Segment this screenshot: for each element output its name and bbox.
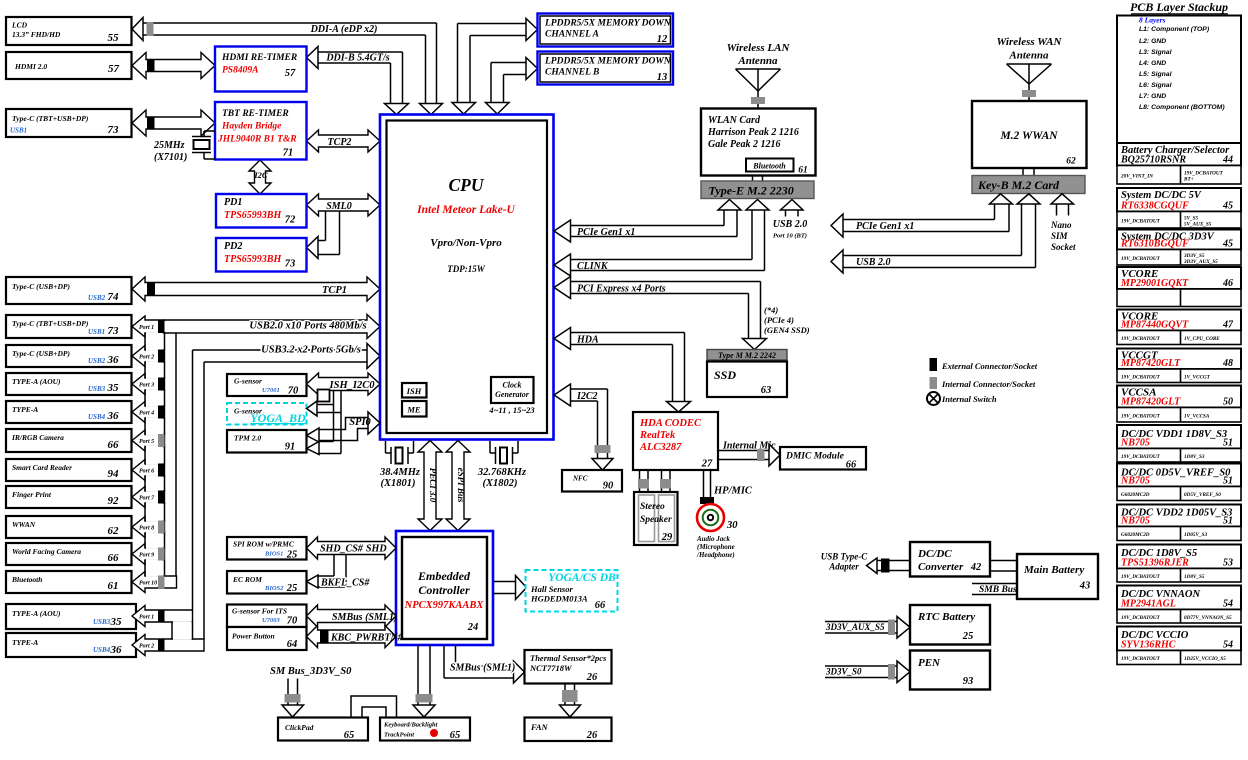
svg-text:PD1: PD1: [224, 197, 242, 208]
svg-text:Type-E M.2 2230: Type-E M.2 2230: [709, 184, 794, 198]
svg-text:1D25V_VCCIO_S5: 1D25V_VCCIO_S5: [1184, 656, 1226, 662]
svg-text:TrackPoint: TrackPoint: [384, 732, 414, 739]
svg-text:54: 54: [1223, 599, 1233, 610]
svg-text:G6020MC2D: G6020MC2D: [1121, 492, 1150, 498]
svg-text:73: 73: [108, 325, 120, 337]
svg-text:65: 65: [450, 730, 461, 741]
svg-text:HDMI RE-TIMER: HDMI RE-TIMER: [221, 53, 297, 63]
svg-text:LPDDR5/5X MEMORY DOWN: LPDDR5/5X MEMORY DOWN: [544, 19, 672, 29]
svg-text:L4: GND: L4: GND: [1139, 60, 1166, 67]
svg-text:Wireless LAN: Wireless LAN: [727, 42, 791, 54]
svg-text:Type M M.2 2242: Type M M.2 2242: [718, 351, 776, 360]
svg-text:NB705: NB705: [1120, 476, 1150, 487]
svg-text:L3: Signal: L3: Signal: [1139, 49, 1172, 56]
svg-text:TYPE-A: TYPE-A: [12, 638, 38, 647]
svg-text:JHL9040R B1 T&R: JHL9040R B1 T&R: [217, 135, 297, 145]
svg-text:CHANNEL A: CHANNEL A: [545, 30, 599, 40]
svg-text:24: 24: [467, 622, 479, 633]
svg-text:Type-C (USB+DP): Type-C (USB+DP): [12, 349, 70, 358]
svg-text:RTC Battery: RTC Battery: [917, 611, 975, 623]
svg-text:Antenna: Antenna: [1008, 50, 1049, 62]
svg-text:66: 66: [108, 439, 120, 451]
svg-text:ISH_I2C0: ISH_I2C0: [329, 380, 376, 391]
svg-text:PS8409A: PS8409A: [222, 66, 258, 76]
svg-text:I2C: I2C: [253, 170, 268, 180]
svg-text:19V_DCBATOUT: 19V_DCBATOUT: [1121, 374, 1161, 380]
svg-text:Speaker: Speaker: [640, 515, 672, 525]
svg-text:SMB Bus: SMB Bus: [979, 585, 1017, 595]
svg-text:SPI0: SPI0: [349, 417, 371, 428]
svg-text:SHD_CS#: SHD_CS#: [320, 544, 364, 555]
svg-text:66: 66: [595, 600, 606, 611]
svg-text:G-sensor For ITS: G-sensor For ITS: [232, 607, 287, 616]
svg-text:HP/MIC: HP/MIC: [713, 486, 753, 497]
svg-text:USB 2.0: USB 2.0: [856, 257, 890, 268]
svg-text:SSD: SSD: [714, 368, 736, 382]
svg-text:SML0: SML0: [326, 201, 352, 212]
svg-text:(*4): (*4): [764, 305, 778, 315]
svg-text:BIOS1: BIOS1: [264, 551, 283, 558]
svg-text:NCT7718W: NCT7718W: [529, 663, 573, 673]
svg-text:DMIC Module: DMIC Module: [785, 452, 845, 462]
svg-text:G6020MC2D: G6020MC2D: [1121, 532, 1150, 538]
svg-text:Audio Jack: Audio Jack: [696, 535, 730, 543]
svg-text:KBC_PWRBTN#: KBC_PWRBTN#: [330, 633, 404, 644]
svg-text:TBT RE-TIMER: TBT RE-TIMER: [222, 109, 289, 119]
svg-text:3D3V_AUX_S5: 3D3V_AUX_S5: [1183, 259, 1218, 265]
svg-text:L7: GND: L7: GND: [1139, 93, 1166, 100]
svg-text:YOGA_BD: YOGA_BD: [250, 411, 306, 425]
svg-text:(X1802): (X1802): [483, 478, 518, 489]
svg-text:HDA CODEC: HDA CODEC: [639, 418, 702, 429]
svg-text:L8: Component (BOTTOM): L8: Component (BOTTOM): [1139, 104, 1225, 111]
svg-text:Internal Mic: Internal Mic: [722, 441, 776, 452]
svg-text:72: 72: [285, 215, 296, 226]
svg-text:Embedded: Embedded: [417, 569, 471, 583]
svg-text:66: 66: [846, 460, 857, 471]
svg-text:USB Type-C: USB Type-C: [821, 552, 868, 562]
svg-text:Port 8: Port 8: [139, 526, 154, 532]
svg-text:Port 4: Port 4: [139, 411, 154, 417]
svg-text:SIM: SIM: [1051, 231, 1069, 241]
svg-text:19V_DCBATOUT: 19V_DCBATOUT: [1121, 454, 1161, 460]
svg-text:USB2: USB2: [88, 357, 106, 365]
svg-text:CHANNEL B: CHANNEL B: [545, 68, 599, 78]
svg-text:DC/DC: DC/DC: [917, 548, 952, 560]
svg-text:Gale Peak 2 1216: Gale Peak 2 1216: [708, 139, 781, 150]
svg-text:70: 70: [288, 386, 299, 397]
svg-text:I2C2: I2C2: [576, 391, 598, 402]
svg-text:73: 73: [285, 259, 296, 270]
svg-text:BQ25710RSNR: BQ25710RSNR: [1120, 155, 1186, 166]
svg-text:ME: ME: [406, 405, 421, 415]
svg-text:DDI-B 5.4GT/s: DDI-B 5.4GT/s: [325, 53, 389, 64]
svg-text:MP29001GQKT: MP29001GQKT: [1120, 278, 1189, 289]
svg-text:PECI 3.0: PECI 3.0: [428, 468, 438, 503]
svg-text:SMBus (SML1): SMBus (SML1): [450, 663, 515, 674]
svg-text:HDA: HDA: [576, 335, 599, 346]
svg-text:LPDDR5/5X MEMORY DOWN: LPDDR5/5X MEMORY DOWN: [544, 57, 672, 67]
svg-text:(GEN4 SSD): (GEN4 SSD): [764, 325, 810, 335]
svg-text:PCIe Gen1 x1: PCIe Gen1 x1: [856, 221, 914, 232]
svg-text:73: 73: [108, 124, 120, 136]
svg-text:PEN: PEN: [918, 657, 941, 669]
svg-text:45: 45: [1222, 239, 1233, 250]
svg-text:L2: GND: L2: GND: [1139, 38, 1166, 45]
svg-text:WLAN Card: WLAN Card: [708, 115, 761, 126]
svg-text:TYPE-A (AOU): TYPE-A (AOU): [12, 377, 61, 386]
svg-text:Wireless WAN: Wireless WAN: [997, 36, 1063, 48]
svg-text:/Headphone): /Headphone): [696, 551, 735, 559]
svg-text:1D8V_S5: 1D8V_S5: [1184, 574, 1205, 580]
svg-text:NPCX997KAABX: NPCX997KAABX: [404, 600, 485, 611]
svg-text:19V_DCBATOUT: 19V_DCBATOUT: [1121, 256, 1161, 262]
svg-text:ISH: ISH: [406, 386, 422, 396]
svg-text:1D8V_S3: 1D8V_S3: [1184, 454, 1205, 460]
svg-text:TPS51396RJER: TPS51396RJER: [1121, 558, 1189, 569]
svg-text:62: 62: [1066, 157, 1076, 167]
svg-text:USB2.0 x10 Ports 480Mb/s: USB2.0 x10 Ports 480Mb/s: [249, 321, 366, 332]
svg-text:TPS65993BH: TPS65993BH: [224, 210, 282, 221]
svg-text:51: 51: [1223, 516, 1233, 527]
svg-text:SHD: SHD: [366, 544, 387, 555]
svg-text:42: 42: [970, 562, 982, 573]
svg-text:64: 64: [287, 639, 298, 650]
svg-text:4~11 , 15~23: 4~11 , 15~23: [488, 405, 535, 415]
svg-text:Port 1: Port 1: [139, 325, 154, 331]
svg-text:(X7101): (X7101): [154, 152, 187, 163]
svg-text:Port 9: Port 9: [139, 553, 154, 559]
svg-text:36: 36: [107, 354, 120, 366]
svg-text:Converter: Converter: [918, 561, 964, 573]
svg-text:Internal Switch: Internal Switch: [941, 394, 997, 404]
svg-text:M.2 WWAN: M.2 WWAN: [999, 130, 1058, 142]
svg-text:Keyboard/Backlight: Keyboard/Backlight: [383, 722, 438, 729]
svg-text:46: 46: [1222, 278, 1233, 289]
svg-text:Power Button: Power Button: [232, 632, 275, 641]
svg-text:Port 6: Port 6: [139, 469, 154, 475]
svg-text:51: 51: [1223, 438, 1233, 449]
svg-text:29: 29: [661, 532, 673, 543]
svg-text:Harrison Peak 2 1216: Harrison Peak 2 1216: [707, 127, 799, 138]
svg-text:Internal Connector/Socket: Internal Connector/Socket: [941, 379, 1036, 389]
svg-text:Main Battery: Main Battery: [1023, 564, 1084, 576]
svg-text:ALC3287: ALC3287: [639, 442, 682, 453]
svg-text:TPM 2.0: TPM 2.0: [234, 434, 261, 443]
svg-text:19V_DCBATOUT: 19V_DCBATOUT: [1121, 574, 1161, 580]
svg-text:U7001: U7001: [262, 387, 280, 394]
svg-text:94: 94: [108, 468, 120, 480]
svg-text:RT6338CGQUF: RT6338CGQUF: [1120, 201, 1189, 212]
svg-text:61: 61: [108, 580, 119, 592]
svg-text:71: 71: [283, 148, 294, 159]
svg-text:Clock: Clock: [502, 381, 521, 390]
svg-text:G-sensor: G-sensor: [234, 377, 262, 386]
svg-text:NB705: NB705: [1120, 516, 1150, 527]
svg-text:USB 2.0: USB 2.0: [773, 219, 807, 230]
svg-text:57: 57: [285, 68, 296, 79]
svg-text:63: 63: [761, 385, 772, 396]
svg-text:43: 43: [1079, 581, 1091, 592]
svg-text:Type-C (TBT+USB+DP): Type-C (TBT+USB+DP): [12, 114, 89, 123]
svg-text:RealTek: RealTek: [639, 430, 676, 441]
svg-text:0D5V_VREF_S0: 0D5V_VREF_S0: [1184, 492, 1221, 498]
svg-text:Thermal Sensor*2pcs: Thermal Sensor*2pcs: [530, 653, 607, 663]
svg-text:13.3” FHD/HD: 13.3” FHD/HD: [12, 30, 61, 39]
svg-text:IR/RGB Camera: IR/RGB Camera: [11, 433, 64, 442]
svg-text:25: 25: [286, 550, 298, 561]
svg-text:3D3V_S0: 3D3V_S0: [825, 667, 862, 677]
svg-text:66: 66: [108, 552, 120, 564]
svg-text:0D77V_VNNAON_S5: 0D77V_VNNAON_S5: [1184, 615, 1232, 621]
svg-text:Intel Meteor Lake-U: Intel Meteor Lake-U: [416, 204, 515, 216]
svg-text:MP87420GLT: MP87420GLT: [1120, 397, 1181, 408]
svg-text:HDMI 2.0: HDMI 2.0: [14, 62, 47, 71]
svg-text:36: 36: [107, 410, 120, 422]
svg-text:57: 57: [108, 63, 120, 75]
svg-text:Socket: Socket: [1051, 242, 1076, 252]
svg-text:62: 62: [108, 525, 120, 537]
svg-text:35: 35: [107, 382, 120, 394]
svg-text:Type-C (USB+DP): Type-C (USB+DP): [12, 282, 70, 291]
svg-text:BT+: BT+: [1183, 176, 1194, 182]
svg-text:ClickPad: ClickPad: [285, 723, 314, 732]
svg-text:Adapter: Adapter: [828, 562, 859, 572]
svg-text:SM Bus_3D3V_S0: SM Bus_3D3V_S0: [270, 666, 352, 677]
svg-text:NFC: NFC: [572, 475, 588, 483]
svg-text:1V_VCCGT: 1V_VCCGT: [1184, 374, 1211, 380]
svg-text:Port 2: Port 2: [139, 644, 154, 650]
svg-text:19V_DCBATOUT: 19V_DCBATOUT: [1121, 218, 1161, 224]
svg-text:19V_DCBATOUT: 19V_DCBATOUT: [1121, 615, 1161, 621]
svg-text:USB2: USB2: [88, 294, 106, 302]
svg-text:1D05V_S3: 1D05V_S3: [1184, 532, 1207, 538]
svg-text:HGDEDM013A: HGDEDM013A: [530, 594, 588, 604]
svg-text:Vpro/Non-Vpro: Vpro/Non-Vpro: [430, 237, 502, 249]
svg-text:L6: Signal: L6: Signal: [1139, 82, 1172, 89]
svg-text:MP87440GQVT: MP87440GQVT: [1120, 320, 1189, 331]
svg-text:SYV136RHC: SYV136RHC: [1121, 640, 1176, 651]
svg-text:Port 10: Port 10: [139, 581, 157, 587]
svg-text:44: 44: [1222, 155, 1233, 166]
svg-text:Port 3: Port 3: [139, 383, 154, 389]
svg-text:Smart Card Reader: Smart Card Reader: [12, 463, 72, 472]
svg-text:70: 70: [287, 616, 298, 627]
svg-text:External Connector/Socket: External Connector/Socket: [941, 361, 1038, 371]
svg-text:Hall Sensor: Hall Sensor: [530, 584, 573, 594]
svg-text:World Facing Camera: World Facing Camera: [12, 547, 81, 556]
svg-text:26: 26: [586, 672, 598, 683]
svg-text:30: 30: [726, 520, 738, 531]
svg-text:26: 26: [586, 730, 598, 741]
svg-text:(X1801): (X1801): [381, 478, 416, 489]
svg-text:BIOS2: BIOS2: [264, 585, 284, 592]
svg-text:WWAN: WWAN: [12, 520, 36, 529]
svg-text:System DC/DC 5V: System DC/DC 5V: [1121, 190, 1202, 201]
svg-text:MP87420GLT: MP87420GLT: [1120, 358, 1181, 369]
svg-text:Bluetooth: Bluetooth: [752, 162, 786, 171]
svg-text:USB4: USB4: [93, 646, 111, 654]
svg-text:1V_CPU_CORE: 1V_CPU_CORE: [1184, 336, 1220, 342]
svg-text:54: 54: [1223, 640, 1233, 651]
svg-text:48: 48: [1222, 358, 1233, 369]
svg-text:eSPI Bus: eSPI Bus: [456, 468, 466, 503]
svg-text:13: 13: [657, 72, 668, 83]
svg-text:Bluetooth: Bluetooth: [11, 575, 42, 584]
svg-text:36: 36: [110, 644, 123, 656]
svg-text:38.4MHz: 38.4MHz: [379, 467, 421, 478]
svg-text:(PCIe 4): (PCIe 4): [764, 315, 794, 325]
svg-text:90: 90: [603, 481, 614, 492]
svg-text:35: 35: [110, 616, 123, 628]
svg-text:CLINK: CLINK: [577, 261, 609, 272]
svg-text:LCD: LCD: [11, 21, 28, 30]
svg-text:PD2: PD2: [224, 241, 242, 252]
svg-text:USB4: USB4: [88, 413, 106, 421]
svg-text:Type-C (TBT+USB+DP): Type-C (TBT+USB+DP): [12, 319, 89, 328]
svg-text:L1: Component (TOP): L1: Component (TOP): [1139, 26, 1210, 33]
svg-text:PCI Express x4 Ports: PCI Express x4 Ports: [577, 284, 666, 295]
svg-text:1V_VCCSA: 1V_VCCSA: [1184, 413, 1210, 419]
svg-text:25: 25: [286, 583, 298, 594]
svg-text:27: 27: [701, 459, 713, 470]
svg-text:Port 2: Port 2: [139, 355, 154, 361]
svg-text:SMBus (SML1): SMBus (SML1): [332, 612, 397, 623]
svg-text:92: 92: [108, 495, 120, 507]
svg-text:Nano: Nano: [1050, 220, 1072, 230]
svg-text:U7003: U7003: [262, 617, 280, 624]
svg-text:TCP1: TCP1: [322, 285, 347, 296]
svg-text:20V_VINT_IN: 20V_VINT_IN: [1120, 173, 1153, 179]
svg-text:25MHz: 25MHz: [153, 140, 185, 151]
svg-text:USB1: USB1: [10, 127, 27, 135]
svg-text:51: 51: [1223, 476, 1233, 487]
svg-text:Controller: Controller: [418, 583, 470, 597]
svg-text:TYPE-A: TYPE-A: [12, 405, 38, 414]
svg-text:RT6310BGQUF: RT6310BGQUF: [1120, 239, 1189, 250]
svg-text:NB705: NB705: [1120, 438, 1150, 449]
svg-text:8 Layers: 8 Layers: [1139, 16, 1166, 25]
svg-text:Hayden Bridge: Hayden Bridge: [221, 122, 282, 132]
svg-text:TYPE-A (AOU): TYPE-A (AOU): [12, 609, 61, 618]
svg-text:CPU: CPU: [449, 175, 485, 195]
svg-text:Port 1: Port 1: [139, 615, 154, 621]
svg-text:USB3: USB3: [88, 385, 106, 393]
svg-text:19V_DCBATOUT: 19V_DCBATOUT: [1121, 413, 1161, 419]
svg-text:Antenna: Antenna: [737, 55, 778, 67]
svg-text:74: 74: [108, 291, 120, 303]
svg-text:Port 5: Port 5: [139, 439, 154, 445]
svg-text:45: 45: [1222, 201, 1233, 212]
svg-text:Key-B M.2 Card: Key-B M.2 Card: [977, 178, 1060, 192]
svg-text:Port 7: Port 7: [139, 496, 155, 502]
svg-text:YOGA/CS DB: YOGA/CS DB: [548, 572, 616, 584]
svg-text:USB3.2 x2 Ports 5Gb/s: USB3.2 x2 Ports 5Gb/s: [261, 345, 361, 356]
svg-text:SPI ROM w/PRMC: SPI ROM w/PRMC: [233, 540, 295, 549]
svg-text:PCB Layer Stackup: PCB Layer Stackup: [1130, 0, 1228, 14]
svg-text:91: 91: [285, 442, 296, 453]
svg-text:EC ROM: EC ROM: [232, 575, 262, 584]
svg-text:19V_DCBATOUT: 19V_DCBATOUT: [1121, 336, 1161, 342]
svg-text:TDP:15W: TDP:15W: [447, 264, 485, 274]
svg-text:19V_DCBATOUT: 19V_DCBATOUT: [1121, 656, 1161, 662]
svg-text:53: 53: [1223, 558, 1233, 569]
svg-text:PCIe Gen1 x1: PCIe Gen1 x1: [577, 227, 635, 238]
svg-text:Port 10 (BT): Port 10 (BT): [773, 233, 807, 240]
svg-text:(Microphone: (Microphone: [697, 543, 735, 551]
svg-text:93: 93: [963, 676, 974, 687]
svg-text:FAN: FAN: [530, 722, 549, 732]
svg-text:5V_AUX_S5: 5V_AUX_S5: [1184, 221, 1212, 227]
svg-text:25: 25: [962, 631, 974, 642]
svg-text:USB3: USB3: [93, 618, 111, 626]
svg-text:L5: Signal: L5: Signal: [1139, 71, 1172, 78]
svg-text:Finger Print: Finger Print: [12, 490, 52, 499]
svg-text:12: 12: [657, 34, 668, 45]
svg-text:BKFL_CS#: BKFL_CS#: [320, 578, 370, 589]
svg-text:32.768KHz: 32.768KHz: [477, 467, 527, 478]
svg-text:USB1: USB1: [88, 328, 105, 336]
svg-text:61: 61: [798, 166, 808, 176]
svg-text:47: 47: [1222, 320, 1234, 331]
svg-text:TPS65993BH: TPS65993BH: [224, 254, 282, 265]
svg-text:DDI-A (eDP x2): DDI-A (eDP x2): [310, 24, 378, 35]
svg-text:MP2941AGL: MP2941AGL: [1120, 599, 1176, 610]
svg-text:50: 50: [1223, 397, 1233, 408]
svg-text:Generator: Generator: [495, 390, 530, 399]
svg-text:65: 65: [344, 730, 355, 741]
svg-text:3D3V_AUX_S5: 3D3V_AUX_S5: [825, 622, 885, 632]
svg-text:55: 55: [108, 32, 120, 44]
svg-text:TCP2: TCP2: [328, 137, 352, 148]
svg-text:Stereo: Stereo: [640, 502, 665, 512]
